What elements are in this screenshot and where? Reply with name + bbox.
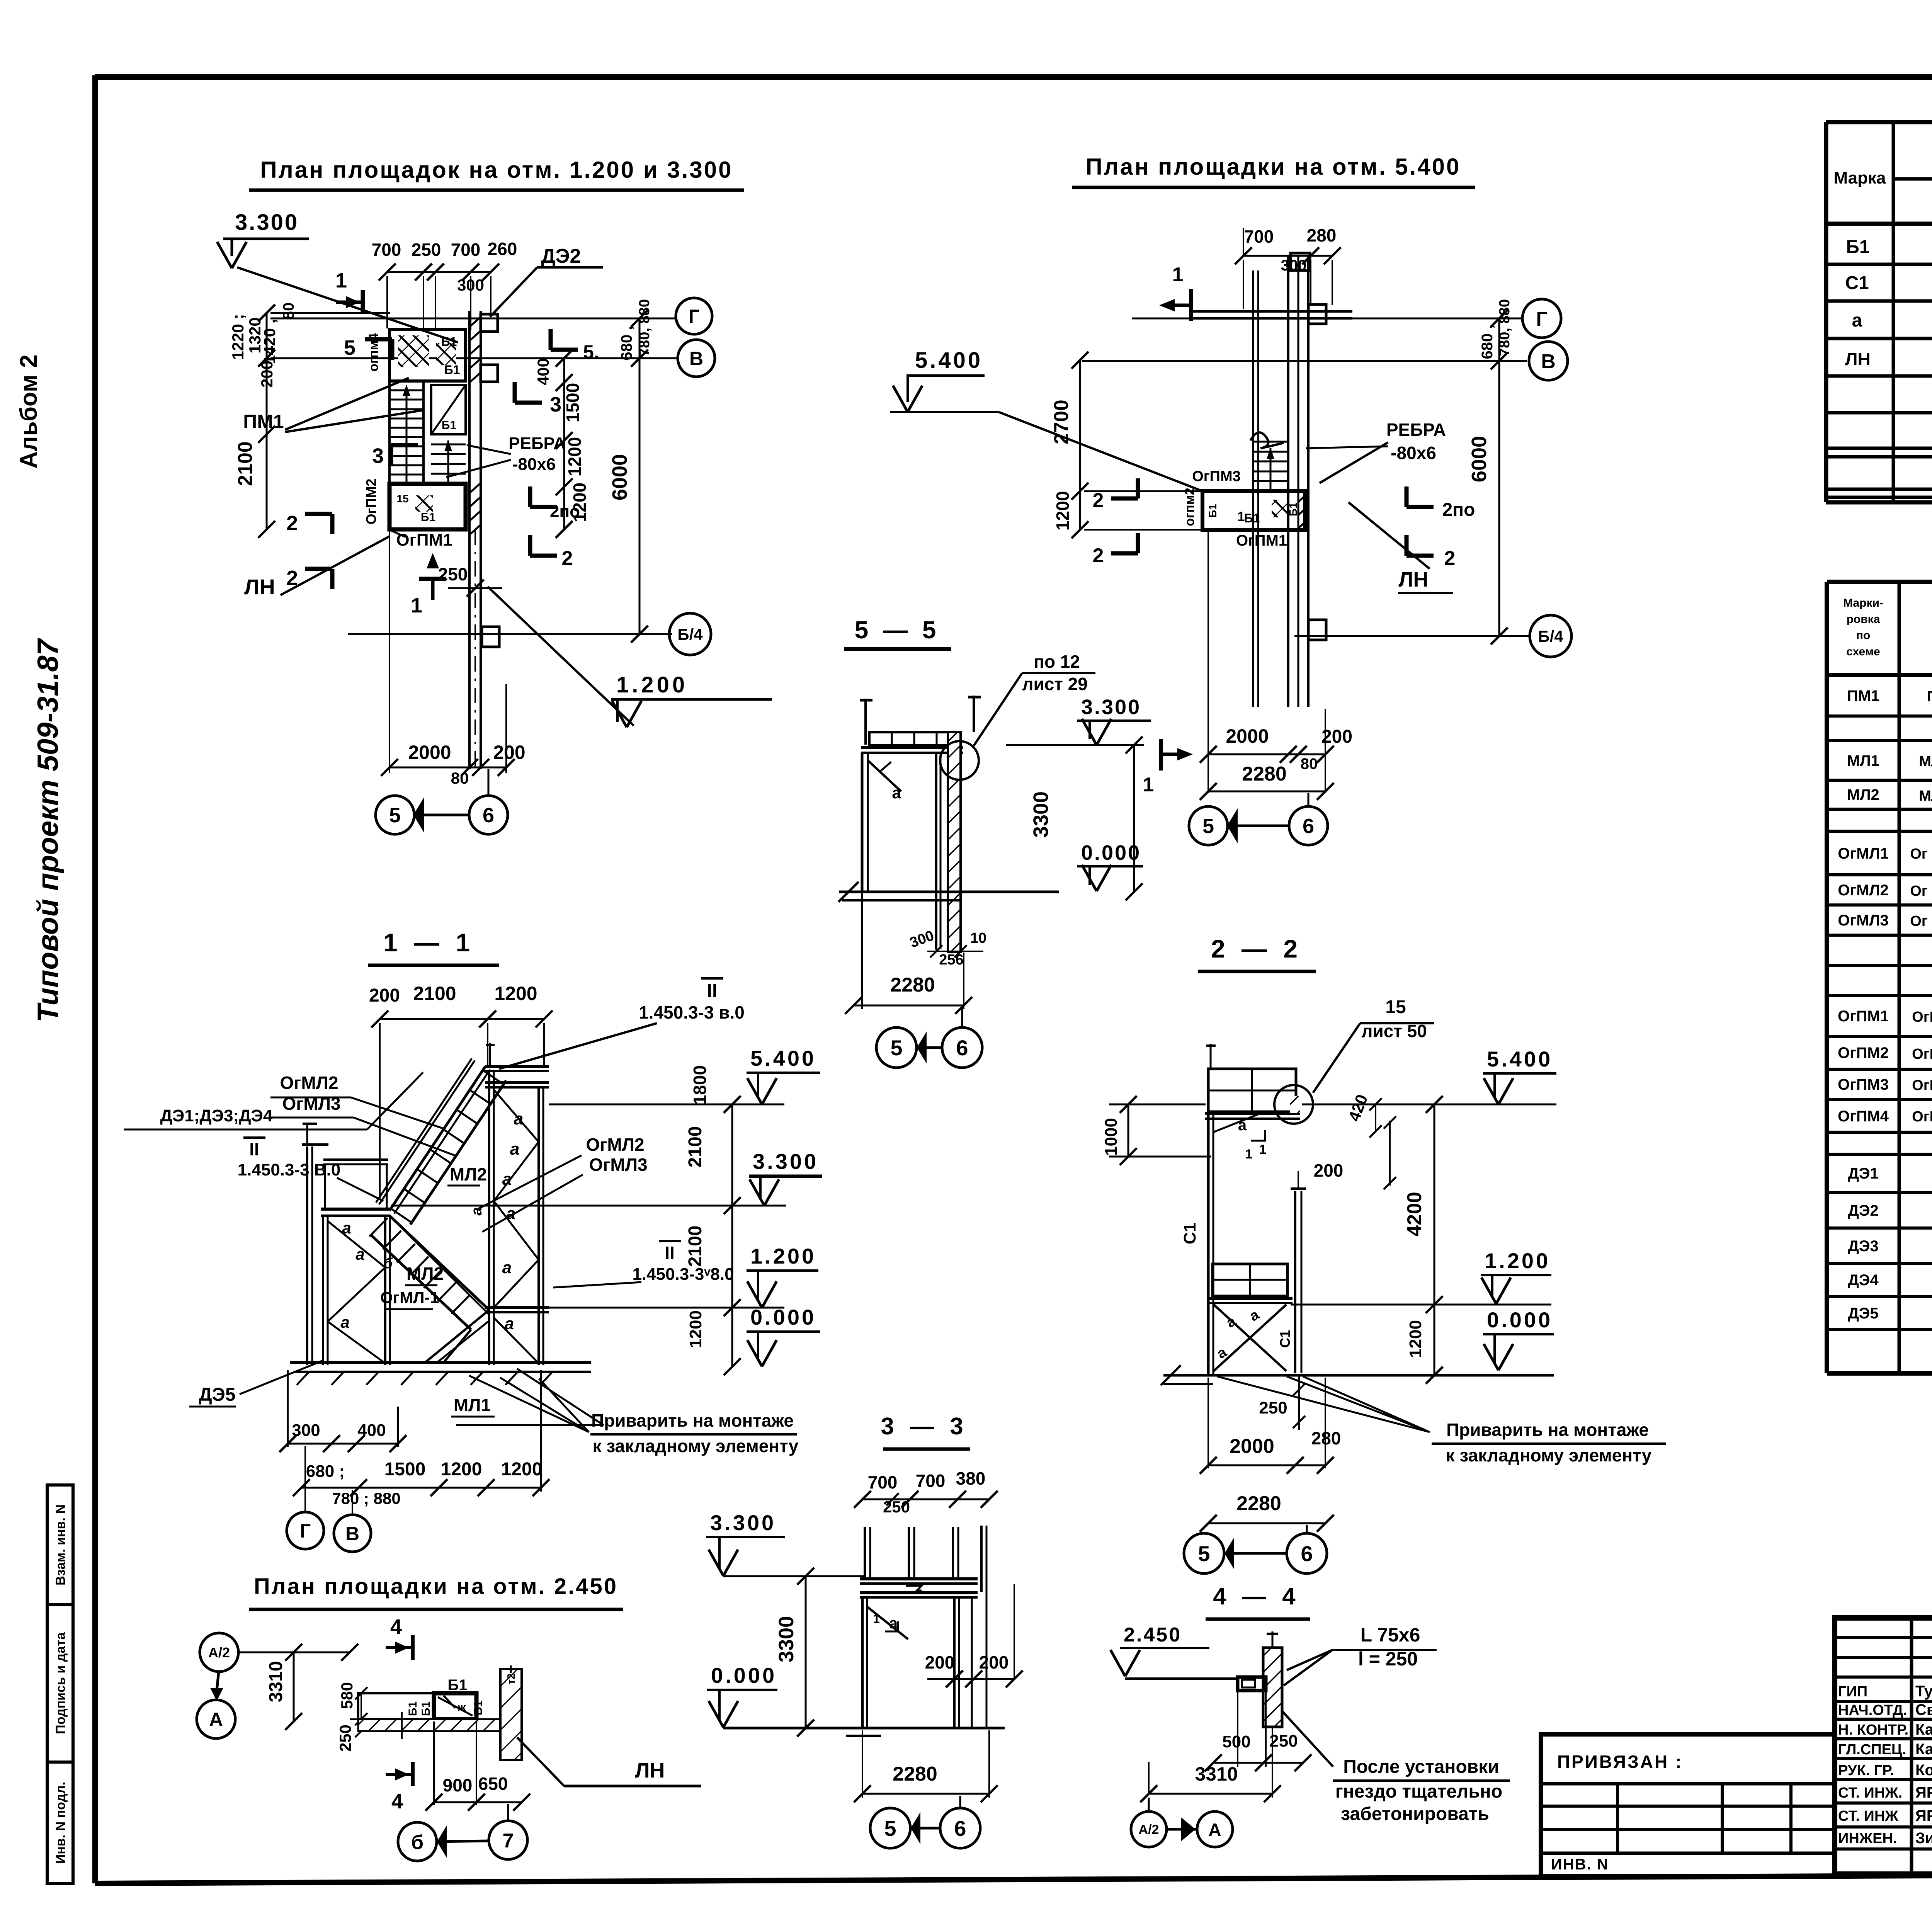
svg-text:б: б [411,1831,423,1854]
plan 2.450 axis arrow [437,1841,489,1842]
svg-text:А: А [209,1709,223,1730]
svg-text:6: 6 [483,804,494,827]
plan 2 dimension 2280 [1208,791,1325,793]
table 2 row ДЭ2 [1848,1201,1932,1220]
plan 2 axis circle Б/4 [1530,615,1571,657]
svg-text:3.300: 3.300 [753,1149,818,1174]
section 1-1 ref label II right [659,1240,681,1242]
svg-text:1200: 1200 [501,1459,543,1480]
svg-text:2000: 2000 [1230,1435,1274,1458]
svg-text:2: 2 [1444,547,1456,570]
svg-text:ж: ж [457,1701,466,1714]
plan 2 section flag 2 left [1111,497,1138,501]
svg-text:15: 15 [1385,997,1406,1017]
section 2-2 braced panel [1214,1305,1286,1371]
plan 2.450 arrow between А/2 and А [216,1672,219,1694]
plan 2 axis arrow between 5 and 6 [1228,825,1289,827]
svg-text:1.200: 1.200 [616,672,688,697]
plan 1 stair lower platform [389,484,466,529]
plan 2 section flag 2 left lower [1111,551,1138,556]
svg-text:II: II [665,1243,675,1263]
svg-text:250: 250 [1259,1398,1287,1417]
plan 2 section flag 1 top [1189,289,1193,321]
plan 2.450 section flag 4 bottom [411,1762,415,1786]
svg-text:Г: Г [300,1520,311,1542]
svg-text:Г: Г [689,306,699,327]
section 3-3 right column [953,1597,956,1728]
svg-text:700: 700 [1244,226,1274,247]
svg-text:1200: 1200 [494,983,537,1004]
svg-text:огпм2: огпм2 [1182,488,1197,526]
svg-text:4 — 4: 4 — 4 [1213,1583,1300,1610]
svg-text:а: а [1852,310,1862,331]
title block left grid [1835,1618,1932,1874]
plan 2 bottom axis circle 6 [1289,806,1328,845]
plan 2 platform [1202,491,1305,530]
svg-text:Б1: Б1 [420,1701,432,1716]
plan 1 wall embedded plate bottom [482,627,499,647]
plan 1 stair flight 1 treads [389,381,423,484]
svg-text:ДЭ2: ДЭ2 [541,245,581,267]
svg-text:1: 1 [1245,1147,1253,1162]
plan 1 axis line Г [270,318,675,320]
plan 2.450 axis circle А/2 [200,1633,238,1672]
table 2 row ОгПМ1 [1838,1007,1932,1026]
privyazan block grid [1541,1784,1835,1853]
plan 1 stair mid landing [431,385,466,434]
svg-text:2: 2 [562,547,573,570]
plan 1 axis line В [270,357,677,359]
svg-text:-80x6: -80x6 [1391,443,1436,463]
svg-text:Подпись и дата: Подпись и дата [53,1632,68,1734]
section 2-2 right rail [1294,1191,1296,1373]
svg-text:80: 80 [451,769,469,787]
svg-text:380: 380 [956,1468,986,1488]
svg-text:II: II [707,981,718,1001]
svg-text:а: а [340,1313,349,1331]
table 1 grid [1826,122,1932,502]
plan 1 section flag 1 top [336,301,363,304]
section 2-2 weld detail circle [1274,1085,1313,1124]
svg-text:780 ; 880: 780 ; 880 [332,1489,400,1507]
svg-text:6: 6 [956,1036,968,1060]
section 5-5 axis circle 6 [942,1027,982,1068]
svg-text:ИНВ. N: ИНВ. N [1551,1856,1609,1873]
svg-text:МЛ1: МЛ1 [1847,752,1879,769]
svg-text:Б1: Б1 [441,335,457,349]
svg-text:3.300: 3.300 [1081,696,1141,719]
section 3-3 ground line [723,1727,1005,1730]
svg-text:ОгПМ2: ОгПМ2 [1838,1044,1889,1061]
plan 2 stair stringer rails [1252,270,1254,707]
section 5-5 deck beam [861,746,963,749]
svg-text:5 — 5: 5 — 5 [855,616,940,644]
plan 1 stair upper platform [389,330,466,381]
svg-text:Ог МЛХ45-10.12: Ог МЛХ45-10.12 [1910,846,1932,862]
svg-text:l = 250: l = 250 [1358,1648,1418,1670]
svg-text:План площадки на отм. 2.450: План площадки на отм. 2.450 [254,1574,618,1599]
section 3-3 brace with а [867,1607,908,1639]
section 1-1 axis circle Г bottom [287,1512,324,1549]
plan 1 axis circle Б/4 [669,613,711,655]
plan 1 section flag 5 left [365,337,392,342]
section 2-2 brace top [1213,1114,1260,1132]
svg-text:РЕБРА: РЕБРА [1386,420,1446,440]
plan 2 section flag 2 right [1406,554,1434,558]
plan 1 axis circle Г [676,298,712,334]
svg-text:5.400: 5.400 [915,348,983,373]
svg-text:ровка: ровка [1847,613,1880,626]
svg-text:680 ,: 680 , [1479,325,1496,359]
svg-text:С1: С1 [1277,1330,1293,1348]
svg-text:ОгМЛ2: ОгМЛ2 [1838,882,1888,899]
svg-text:250: 250 [883,1498,910,1516]
svg-text:ОгПМ1: ОгПМ1 [396,531,452,549]
svg-text:3 — 3: 3 — 3 [881,1413,968,1440]
plan 1 section flag 2по right [530,505,557,509]
section 4-4 axis arrow [1167,1828,1197,1831]
svg-text:В: В [689,348,703,369]
svg-text:В: В [1541,350,1556,373]
svg-text:2: 2 [1093,489,1104,512]
table 2 row МЛ1 [1847,752,1932,771]
plan 2 wall embedded plate top [1308,304,1326,324]
svg-text:80: 80 [280,303,297,320]
svg-text:План площадки на отм. 5.400: План площадки на отм. 5.400 [1086,154,1461,180]
svg-text:а: а [892,784,901,802]
svg-text:3.300: 3.300 [710,1510,776,1535]
svg-text:Взам. инв. N: Взам. инв. N [53,1504,68,1585]
section 2-2 railing posts top [1210,1044,1212,1069]
svg-text:1800: 1800 [690,1065,710,1105]
plan 2.450 hatched band [358,1719,507,1731]
svg-text:Ог МЛХ45-10.24: Ог МЛХ45-10.24 [1910,913,1932,929]
svg-text:Приварить на монтаже: Приварить на монтаже [1446,1420,1649,1440]
svg-text:Капитульский: Капитульский [1915,1721,1932,1738]
plan 2 left dimension chain [1079,360,1081,530]
svg-text:б: б [383,1255,393,1272]
section 5-5 left post [861,753,864,892]
section 2-2 ground line [1163,1374,1554,1377]
table 2 row ДЭ5 [1848,1304,1932,1323]
section 1-1 far left mast [302,1123,328,1365]
plan 1 bottom axis circle 5 [376,796,414,834]
svg-text:ОгМЛ3: ОгМЛ3 [1838,912,1888,929]
svg-text:80: 80 [1301,755,1318,772]
svg-text:т2: т2 [505,1673,517,1684]
svg-text:200: 200 [1314,1160,1344,1180]
section 5-5 axis circle 5 [876,1027,917,1068]
section 2-2 left stringer [1207,1112,1210,1376]
section 3-3 dim 3300 [805,1576,807,1728]
section 1-1 upper flight [376,1058,506,1225]
title block signatures rows [1838,1683,1932,1847]
svg-text:ПРИВЯЗАН :: ПРИВЯЗАН : [1557,1752,1683,1772]
svg-text:3310: 3310 [1195,1763,1238,1785]
svg-text:Марки-: Марки- [1843,597,1883,609]
section 2-2 weld leaders [1217,1376,1430,1432]
svg-text:Б1: Б1 [442,419,456,432]
plan 1 dimension 6000 [639,318,641,634]
svg-text:Корсунский: Корсунский [1915,1762,1932,1779]
svg-text:400: 400 [534,358,552,385]
svg-text:1: 1 [1143,774,1154,796]
svg-text:гнездо тщательно: гнездо тщательно [1335,1781,1502,1802]
svg-text:6000: 6000 [1468,436,1491,482]
svg-text:Инв. N подл.: Инв. N подл. [53,1782,68,1864]
section 1-1 top platform [485,1065,549,1068]
svg-text:6: 6 [1301,1541,1313,1566]
table 2 row ОгМЛ1 [1838,838,1932,869]
plan 2.450 axis circle б [398,1822,437,1861]
left margin stamp boxes [47,1485,73,1883]
svg-text:а: а [505,1314,514,1333]
svg-text:700: 700 [916,1471,946,1491]
svg-text:580: 580 [338,1682,356,1709]
svg-text:лист 29: лист 29 [1022,674,1088,694]
svg-text:2100: 2100 [685,1126,706,1168]
svg-text:1200: 1200 [565,437,585,476]
svg-text:0.000: 0.000 [750,1305,816,1329]
svg-text:МЛ2: МЛ2 [406,1264,444,1284]
svg-text:ЛН: ЛН [635,1759,665,1782]
section 3-3 axis circle 5 [870,1808,910,1848]
svg-text:1420 ,: 1420 , [260,319,279,364]
svg-text:ЛН: ЛН [1845,349,1871,369]
svg-text:В: В [345,1523,359,1544]
plan 1 section flag 2 left upper [305,512,332,516]
svg-text:650: 650 [478,1774,508,1794]
plan 2 stair treads [1250,432,1288,491]
svg-text:ДЭ1: ДЭ1 [1848,1165,1878,1182]
plan 1 section flag 2 right [530,554,557,558]
section 5-5 wall column hatched [948,732,961,952]
svg-text:Б1: Б1 [421,511,435,524]
svg-text:а: а [469,1207,485,1215]
section 1-1 right dimension chain [731,1104,733,1367]
section 4-4 column hatched [1263,1648,1282,1727]
svg-text:к закладному элементу: к закладному элементу [593,1436,799,1456]
svg-text:ДЭ2: ДЭ2 [1848,1202,1878,1219]
svg-text:С1: С1 [1845,273,1869,293]
svg-text:Б1: Б1 [444,363,460,377]
section 2-2 axis arrow [1224,1552,1287,1555]
svg-text:огпм4: огпм4 [366,333,381,372]
border frame [95,74,1932,80]
svg-text:5.: 5. [583,341,599,363]
plan 2 dimension 6000 [1498,318,1500,636]
svg-text:200: 200 [925,1652,955,1672]
svg-text:С1: С1 [1180,1223,1199,1244]
svg-text:1 — 1: 1 — 1 [383,928,474,957]
section 4-4 embedded box [1238,1677,1266,1691]
svg-text:II: II [249,1139,259,1159]
svg-text:Альбом 2: Альбом 2 [15,354,42,468]
svg-text:ИНЖЕН.: ИНЖЕН. [1838,1830,1897,1847]
plan 2 axis circle В [1529,342,1568,380]
table 2 row ДЭ4 [1848,1271,1932,1290]
svg-text:700: 700 [868,1472,898,1492]
plan 1 section flag 5 right [551,348,578,352]
privyazan block frame [1541,1734,1835,1876]
svg-text:1.200: 1.200 [1485,1249,1550,1273]
plan 2 axis circle Г [1522,299,1561,338]
svg-text:1200: 1200 [570,483,590,522]
section 4-4 leader to note [1282,1711,1333,1767]
section 5-5 column below ground [935,892,937,950]
plan 1 axis line Б/4 [348,633,672,635]
plan 1 wall strip [468,311,471,769]
svg-text:Г: Г [1536,308,1547,330]
section 2-2 axis circle 6 [1287,1533,1327,1573]
svg-text:200: 200 [1321,726,1352,747]
svg-text:ПМ1: ПМ1 [1847,687,1879,704]
svg-text:15: 15 [396,493,408,505]
svg-text:МЛ2: МЛ2 [450,1164,487,1184]
svg-text:ОгПМ1: ОгПМ1 [1236,532,1287,549]
svg-text:ПМХФ-15.8: ПМХФ-15.8 [1927,689,1932,705]
svg-text:2100: 2100 [234,441,257,486]
section 3-3 stringers above deck [865,1526,986,1728]
svg-text:1500: 1500 [384,1459,426,1480]
svg-text:ЯРЦЕВА: ЯРЦЕВА [1915,1807,1932,1824]
plan 2.450 wall column [500,1669,522,1760]
svg-text:ОгПМ2: ОгПМ2 [363,479,379,525]
svg-text:НАЧ.ОТД.: НАЧ.ОТД. [1838,1702,1907,1718]
svg-text:Б1: Б1 [448,1677,468,1694]
svg-text:1: 1 [1259,1142,1267,1157]
svg-text:1.450.3-3 в.0: 1.450.3-3 в.0 [639,1002,745,1022]
svg-text:700: 700 [451,240,481,260]
svg-text:Б/4: Б/4 [677,625,703,643]
svg-text:2280: 2280 [1236,1492,1281,1515]
svg-text:ОгМЛ1: ОгМЛ1 [1838,845,1888,862]
svg-text:ОгПМХ96-10.15: ОгПМХ96-10.15 [1912,1109,1932,1125]
svg-text:4200: 4200 [1403,1192,1426,1237]
svg-text:а: а [514,1109,523,1128]
svg-text:200: 200 [258,361,276,388]
svg-text:680 ,: 680 , [618,326,635,361]
plan 1 section flag 2 left lower [305,567,332,571]
svg-text:1000: 1000 [1102,1118,1121,1156]
svg-text:Марка: Марка [1833,168,1886,187]
svg-text:ОгПМ3: ОгПМ3 [1838,1076,1889,1093]
section 1-1 flight МЛ1 stub [425,1310,489,1362]
svg-text:по 12: по 12 [1034,651,1080,672]
plan 2 top beam [1190,310,1352,313]
svg-text:6: 6 [954,1816,966,1840]
plan 2.450 axis circle 7 [489,1821,527,1859]
plan 2 bottom axis circle 5 [1189,806,1228,845]
svg-text:а: а [889,1615,898,1632]
plan 2 section flag 1 bottom [1159,739,1163,771]
table 2 row ОгПМ4 [1838,1107,1932,1126]
svg-text:1500: 1500 [563,383,583,422]
svg-text:ОгМЛ3: ОгМЛ3 [589,1155,647,1175]
table 2 row ОгПМ2 [1838,1044,1932,1063]
section 1-1 ref label II 1.450.3-3 в.0 top [701,977,723,980]
svg-text:1: 1 [335,269,347,292]
svg-text:ОгПМ4: ОгПМ4 [1838,1108,1889,1125]
svg-text:Б1: Б1 [1287,502,1299,516]
svg-text:5: 5 [890,1036,902,1060]
svg-text:1200: 1200 [1406,1320,1425,1358]
section 3-3 axis circle 6 [940,1808,980,1848]
svg-text:700: 700 [372,240,401,260]
plan 2 axis line В [1082,360,1527,362]
svg-text:1: 1 [1172,264,1184,286]
svg-text:Зинченко: Зинченко [1915,1830,1932,1847]
svg-text:РЕБРА: РЕБРА [509,434,566,453]
svg-text:5.400: 5.400 [1487,1047,1553,1071]
svg-text:Б1: Б1 [406,1701,419,1716]
svg-text:1200: 1200 [441,1459,482,1480]
svg-text:ДЭ4: ДЭ4 [1848,1272,1879,1289]
svg-text:3300: 3300 [1029,791,1053,838]
svg-text:к закладному элементу: к закладному элементу [1446,1445,1652,1465]
section 2-2 top platform grating [1208,1069,1296,1112]
svg-text:3310: 3310 [266,1661,286,1703]
plan 1 section flag 3 left [391,443,418,447]
plan 1 axis arrow between 5 and 6 [414,814,469,816]
section 5-5 brace with а flag [868,760,901,791]
svg-text:5: 5 [1198,1541,1210,1566]
section 5-5 dimension 3300 [1133,745,1135,892]
svg-text:2700: 2700 [1050,400,1073,444]
table 2 row ОгПМ3 [1838,1075,1932,1094]
section 1-1 mid landing handrail [323,1158,388,1161]
section 2-2 lower deck beam [1209,1297,1293,1300]
svg-text:МЛ2: МЛ2 [1847,786,1879,803]
svg-text:6000: 6000 [608,454,631,500]
section 4-4 support line [1125,1677,1238,1680]
svg-text:3300: 3300 [775,1616,798,1662]
svg-text:250: 250 [438,564,468,584]
table 2 row МЛ2 [1847,786,1932,805]
svg-text:250: 250 [336,1725,354,1752]
plan 1 section flag 3 right [515,401,542,405]
section 3-3 axis arrow [910,1827,940,1830]
svg-text:ДЭ1;ДЭ3;ДЭ4: ДЭ1;ДЭ3;ДЭ4 [160,1106,273,1125]
svg-text:МЛХФ45-12.8: МЛХФ45-12.8 [1919,754,1932,770]
svg-text:Б/4: Б/4 [1538,627,1563,645]
svg-text:680 ;: 680 ; [306,1462,345,1481]
plan 2 axis line Г [1132,318,1522,320]
svg-text:ОгПМХ96-10.12: ОгПМХ96-10.12 [1912,1046,1932,1062]
svg-text:2000: 2000 [408,742,451,763]
svg-text:6: 6 [1303,815,1314,838]
svg-text:ДЭ5: ДЭ5 [1848,1305,1878,1322]
plan 1 left dimension chain [266,313,268,529]
svg-text:ГЛ.СПЕЦ.: ГЛ.СПЕЦ. [1838,1742,1906,1758]
svg-text:ЯРЦЕВА: ЯРЦЕВА [1915,1784,1932,1801]
svg-text:4: 4 [391,1790,403,1813]
svg-text:1.450.3-3 В.0: 1.450.3-3 В.0 [238,1160,341,1179]
section 1-1 mid landing deck [321,1208,390,1211]
svg-text:1200: 1200 [686,1310,705,1348]
svg-text:ОгМЛ2: ОгМЛ2 [586,1135,644,1155]
svg-text:2: 2 [286,512,298,535]
svg-text:ДЭ3: ДЭ3 [1848,1238,1878,1255]
svg-text:ОгПМХ96-10.12: ОгПМХ96-10.12 [1912,1077,1932,1094]
svg-text:4: 4 [390,1615,402,1638]
plan 1 bottom dimension chain [389,767,506,769]
svg-text:5.400: 5.400 [750,1046,816,1070]
svg-text:2по: 2по [1442,500,1475,520]
plan 1 right dimension chain [563,358,565,529]
section 5-5 axis arrow [917,1046,942,1049]
table 2 grid [1827,582,1932,1373]
